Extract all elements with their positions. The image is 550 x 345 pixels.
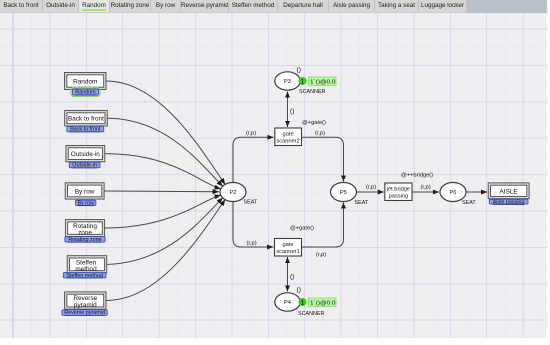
svg-text:Back to front: Back to front — [68, 116, 104, 123]
svg-text:SCANNER: SCANNER — [299, 89, 325, 95]
svg-text:(r,p): (r,p) — [421, 185, 431, 191]
svg-text:1`()@0.0: 1`()@0.0 — [310, 80, 336, 86]
svg-text:By row: By row — [77, 201, 94, 207]
svg-text:zone: zone — [78, 229, 92, 236]
svg-text:1`()@0.0: 1`()@0.0 — [310, 301, 336, 307]
svg-text:Random: Random — [73, 78, 97, 85]
svg-text:SEAT: SEAT — [462, 200, 476, 206]
svg-text:gate: gate — [283, 132, 294, 138]
svg-text:Random: Random — [75, 90, 96, 96]
svg-text:P6: P6 — [450, 190, 457, 196]
svg-text:@++bridge(): @++bridge() — [401, 173, 433, 179]
svg-text:SCANNER: SCANNER — [298, 311, 324, 317]
svg-text:scanner1: scanner1 — [276, 249, 299, 255]
svg-text:SEAT: SEAT — [244, 200, 258, 206]
svg-text:P4: P4 — [284, 300, 291, 306]
svg-text:(): () — [297, 67, 301, 74]
svg-text:(r,p): (r,p) — [247, 241, 257, 247]
svg-text:Reverse pyramid: Reverse pyramid — [64, 310, 105, 316]
svg-text:gate: gate — [282, 242, 293, 248]
svg-text:By row: By row — [75, 188, 95, 195]
svg-text:(): () — [290, 273, 294, 280]
svg-text:P3: P3 — [284, 79, 291, 85]
svg-text:Steffen method: Steffen method — [66, 273, 102, 279]
svg-text:(r,p): (r,p) — [315, 130, 325, 136]
svg-text:(r,p): (r,p) — [366, 185, 376, 191]
svg-text:@+gate(): @+gate() — [302, 120, 326, 126]
svg-text:Outside-in: Outside-in — [72, 163, 97, 169]
svg-text:pyramid: pyramid — [74, 302, 97, 309]
svg-text:SEAT: SEAT — [355, 200, 369, 206]
svg-text:AISLE: AISLE — [500, 188, 518, 195]
svg-text:P2: P2 — [230, 190, 237, 196]
svg-text:passing: passing — [389, 194, 409, 200]
svg-text:(r,p): (r,p) — [246, 130, 256, 136]
svg-text:jet bridge: jet bridge — [386, 187, 410, 193]
svg-text:(): () — [297, 287, 301, 294]
svg-text:(r,p): (r,p) — [316, 252, 326, 258]
svg-text:(): () — [290, 108, 294, 115]
svg-text:Rotating zone: Rotating zone — [68, 237, 101, 243]
svg-text:@+gate(): @+gate() — [290, 226, 314, 232]
svg-text:scanner2: scanner2 — [276, 139, 299, 145]
svg-text:P5: P5 — [340, 190, 347, 196]
svg-text:Outside-in: Outside-in — [71, 151, 101, 158]
svg-text:Back to front: Back to front — [70, 127, 101, 133]
svg-text:Aisle passing: Aisle passing — [493, 199, 525, 205]
